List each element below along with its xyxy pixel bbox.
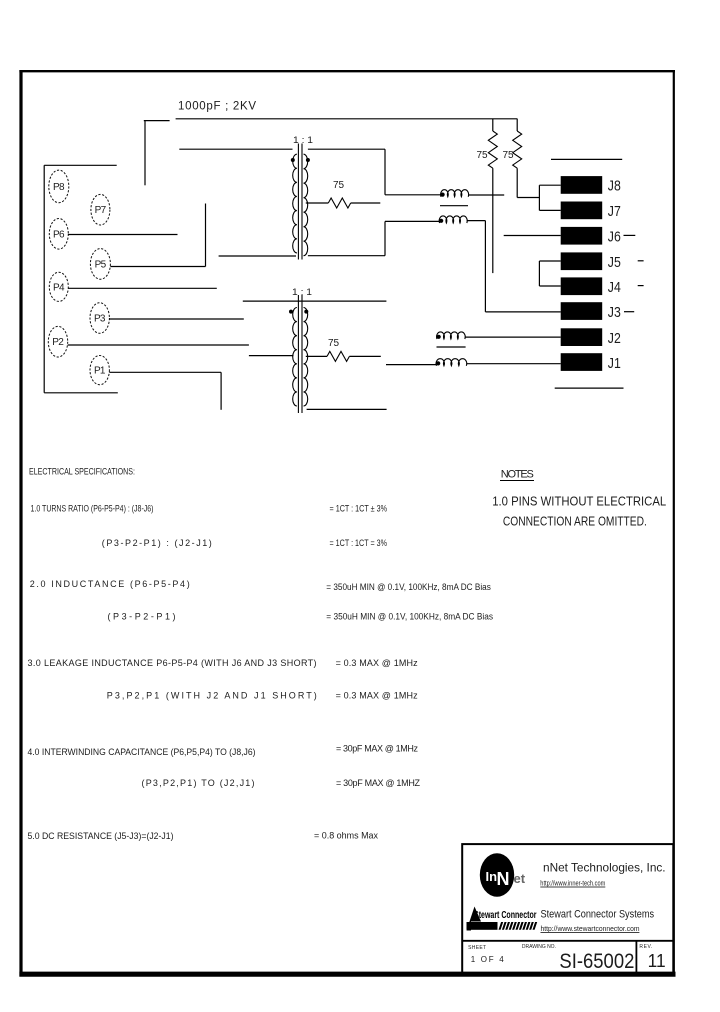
svg-text:P4: P4: [53, 282, 65, 293]
wire P5 vertical riser: [205, 204, 207, 267]
connector P bracket: [44, 165, 118, 392]
title company nNet Technologies: [543, 861, 666, 875]
title url stewartconnector: [541, 924, 640, 933]
pin P6: [49, 219, 68, 250]
choke L3: [437, 332, 561, 347]
pin J2: [561, 328, 621, 347]
wire stub right of J3: [624, 311, 634, 313]
resistor R2 75 vertical: [477, 119, 498, 273]
node J group top line: [551, 158, 622, 160]
svg-text:J1: J1: [608, 355, 621, 372]
transformer T2 ratio label 1:1: [292, 287, 312, 297]
pin P3: [90, 303, 109, 334]
svg-text:5.0 DC RESISTANCE (J5-J3)=(J2-: 5.0 DC RESISTANCE (J5-J3)=(J2-J1): [28, 831, 174, 841]
choke L2: [439, 216, 485, 223]
svg-text:75: 75: [477, 150, 488, 161]
svg-text:P7: P7: [95, 205, 107, 216]
svg-text:= 1CT : 1CT ± 3%: = 1CT : 1CT ± 3%: [330, 504, 388, 514]
pin J3: [561, 302, 621, 321]
svg-text:= 0.8 ohms Max: = 0.8 ohms Max: [314, 831, 378, 841]
pin P7: [91, 194, 110, 225]
note electrical specifications heading: [29, 467, 135, 477]
svg-text:Stewart Connector: Stewart Connector: [474, 909, 537, 921]
pin P5: [90, 249, 110, 280]
note NOTES heading: [500, 469, 534, 481]
svg-text:http://www.stewartconnector.co: http://www.stewartconnector.com: [541, 924, 640, 933]
pin P2: [48, 326, 67, 357]
logo Stewart Connector: [467, 907, 538, 931]
title block: [462, 844, 673, 975]
wire stub right of J4: [638, 285, 644, 287]
pin P8: [49, 170, 69, 203]
note spec row 1: [31, 504, 388, 514]
svg-text:N: N: [497, 869, 510, 889]
wire L2 to J3: [485, 221, 560, 312]
svg-text:(P3-P2-P1) : (J2-J1): (P3-P2-P1) : (J2-J1): [102, 538, 212, 548]
pin P1: [90, 356, 109, 385]
svg-text:P5: P5: [95, 259, 107, 270]
pin J5: [561, 252, 621, 271]
svg-text:1.0 PINS WITHOUT ELECTRICAL: 1.0 PINS WITHOUT ELECTRICAL: [492, 494, 666, 509]
pin P4: [49, 272, 68, 301]
svg-text:In: In: [486, 869, 498, 884]
note spec row 9: [28, 831, 379, 842]
svg-text:SI-65002: SI-65002: [559, 950, 634, 973]
svg-text:1000pF ; 2KV: 1000pF ; 2KV: [178, 101, 256, 113]
svg-text:DRAWING NO.: DRAWING NO.: [522, 944, 556, 950]
note spec row 5: [28, 658, 419, 668]
svg-text:J4: J4: [608, 279, 621, 296]
svg-text:= 0.3 MAX @ 1MHz: = 0.3 MAX @ 1MHz: [336, 658, 419, 668]
svg-text:P1: P1: [94, 366, 106, 377]
svg-text:75: 75: [503, 150, 514, 161]
svg-text:P3: P3: [94, 314, 106, 325]
wire top net vertical drop: [144, 121, 146, 186]
wire P2: [68, 344, 249, 346]
logo InNet: [480, 853, 526, 897]
svg-text:75: 75: [333, 180, 344, 191]
pin J1: [561, 353, 621, 372]
wire P1 horizontal: [109, 371, 221, 373]
svg-text:11: 11: [648, 951, 666, 971]
note spec row 4: [108, 612, 494, 622]
svg-text:ELECTRICAL SPECIFICATIONS:: ELECTRICAL SPECIFICATIONS:: [29, 467, 135, 477]
svg-text:CONNECTION ARE OMITTED.: CONNECTION ARE OMITTED.: [503, 514, 647, 529]
wire P1 vertical drop: [220, 372, 222, 410]
svg-text:= 350uH MIN @ 0.1V, 100KHz, 8m: = 350uH MIN @ 0.1V, 100KHz, 8mA DC Bias: [326, 582, 491, 592]
note spec row 7: [28, 744, 419, 758]
capacitor C1 label 1000pF 2KV: [178, 101, 256, 113]
note pins omitted: [492, 494, 666, 529]
resistor R3 75 vertical: [503, 119, 540, 198]
svg-text:J5: J5: [608, 254, 621, 271]
svg-text:J2: J2: [608, 330, 621, 347]
wire P2 jog to T2 center tap: [249, 355, 294, 357]
wire T1 secondary bottom to node: [308, 221, 440, 255]
note spec row 8: [142, 778, 421, 788]
transformer T1: [291, 144, 310, 260]
title url inner-tech: [540, 878, 605, 887]
svg-text:4.0 INTERWINDING CAPACITANCE (: 4.0 INTERWINDING CAPACITANCE (P6,P5,P4) …: [28, 747, 256, 757]
svg-text:= 350uH MIN @ 0.1V, 100KHz, 8m: = 350uH MIN @ 0.1V, 100KHz, 8mA DC Bias: [326, 612, 493, 622]
wire T1 primary bottom: [219, 255, 296, 257]
choke L4: [386, 359, 561, 366]
svg-text:J3: J3: [608, 304, 621, 321]
svg-text:Stewart Connector Systems: Stewart Connector Systems: [541, 909, 655, 921]
pin J7: [561, 202, 621, 221]
svg-text:= 30pF MAX @ 1MHz: = 30pF MAX @ 1MHz: [336, 744, 419, 754]
svg-text:1 : 1: 1 : 1: [293, 135, 313, 145]
svg-text:= 1CT : 1CT = 3%: = 1CT : 1CT = 3%: [330, 538, 388, 548]
node J group bottom line: [555, 387, 624, 389]
wire top net horizontal: [176, 118, 518, 120]
svg-text:75: 75: [328, 338, 339, 349]
wire P3: [109, 318, 243, 320]
svg-text:1.0 TURNS RATIO (P6-P5-P4) : (: 1.0 TURNS RATIO (P6-P5-P4) : (J8-J6): [31, 504, 154, 514]
wire J5 J4 bracket: [539, 261, 560, 286]
wire stub right of J6: [624, 234, 636, 236]
wire T2 bottom: [307, 408, 387, 410]
wire P5 horizontal: [110, 266, 205, 268]
svg-text:P2: P2: [52, 337, 64, 348]
svg-text:P6: P6: [53, 229, 65, 240]
pin J6: [561, 227, 621, 246]
wire P4: [68, 287, 217, 289]
note spec row 3: [30, 579, 492, 592]
wire P6 to primary: [68, 234, 177, 236]
wire T1 secondary top to node: [308, 149, 441, 195]
resistor R4 75 center tap: [306, 338, 381, 361]
wire top net stub: [144, 120, 170, 122]
title revision: [639, 944, 665, 971]
title Stewart Connector Systems: [541, 909, 655, 921]
svg-text:J8: J8: [608, 178, 621, 195]
wire to J6: [504, 235, 561, 237]
transformer T1 ratio label 1:1: [293, 135, 313, 145]
svg-text:J7: J7: [608, 203, 621, 220]
svg-text:(P3,P2,P1) TO (J2,J1): (P3,P2,P1) TO (J2,J1): [142, 778, 255, 788]
svg-text:= 0.3 MAX @ 1MHz: = 0.3 MAX @ 1MHz: [336, 691, 419, 701]
resistor R1 75 center tap: [306, 180, 381, 208]
pin J4: [561, 277, 621, 296]
wire node to J8 J7 bracket: [539, 185, 560, 210]
svg-text:= 30pF MAX @ 1MHZ: = 30pF MAX @ 1MHZ: [336, 778, 421, 788]
title sheet cell: [468, 945, 504, 964]
svg-text:2.0 INDUCTANCE (P6-P5-P4): 2.0 INDUCTANCE (P6-P5-P4): [30, 579, 190, 589]
svg-text:SHEET: SHEET: [468, 945, 486, 951]
wire stub right of J5: [638, 260, 644, 262]
svg-text:J6: J6: [608, 229, 621, 246]
svg-text:REV.: REV.: [639, 944, 652, 950]
title drawing number: [522, 944, 635, 973]
pin J8: [561, 176, 621, 195]
svg-text:http://www.inner-tech.com: http://www.inner-tech.com: [540, 878, 605, 887]
note spec row 2: [102, 538, 387, 548]
wire T2 top: [243, 300, 387, 302]
svg-text:et: et: [514, 871, 526, 886]
choke L1: [440, 190, 504, 206]
note spec row 6: [107, 691, 418, 701]
wire T1 primary top: [179, 148, 292, 150]
transformer T2: [289, 295, 308, 413]
svg-text:nNet Technologies, Inc.: nNet Technologies, Inc.: [543, 861, 666, 875]
svg-text:P8: P8: [53, 182, 65, 193]
svg-text:3.0 LEAKAGE INDUCTANCE P6-P5-P: 3.0 LEAKAGE INDUCTANCE P6-P5-P4 (WITH J6…: [28, 658, 317, 668]
svg-text:NOTES: NOTES: [501, 469, 534, 481]
